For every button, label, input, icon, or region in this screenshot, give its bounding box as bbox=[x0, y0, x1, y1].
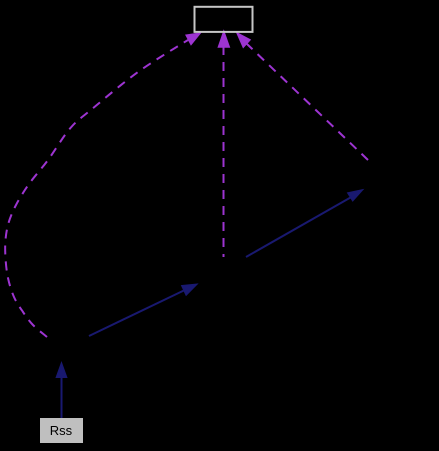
wire: edge middle node -> right node (solid blue) bbox=[246, 190, 363, 257]
wire: edge left node -> middle node (solid blue) bbox=[89, 284, 197, 336]
wire: dashed edge right node -> top box (purple diagonal) bbox=[237, 32, 369, 160]
svg-text:Rss: Rss bbox=[50, 423, 73, 438]
wire: edge Rss -> left node (solid blue) bbox=[56, 363, 67, 419]
wire: dashed edge middle node -> top box (purple vertical) bbox=[218, 31, 230, 257]
node: top box (unlabelled, gray border) bbox=[195, 7, 253, 32]
wire: dashed edge left node -> top box (purple curve) bbox=[5, 33, 201, 337]
node Rss (current node, gray fill) bbox=[40, 418, 83, 443]
